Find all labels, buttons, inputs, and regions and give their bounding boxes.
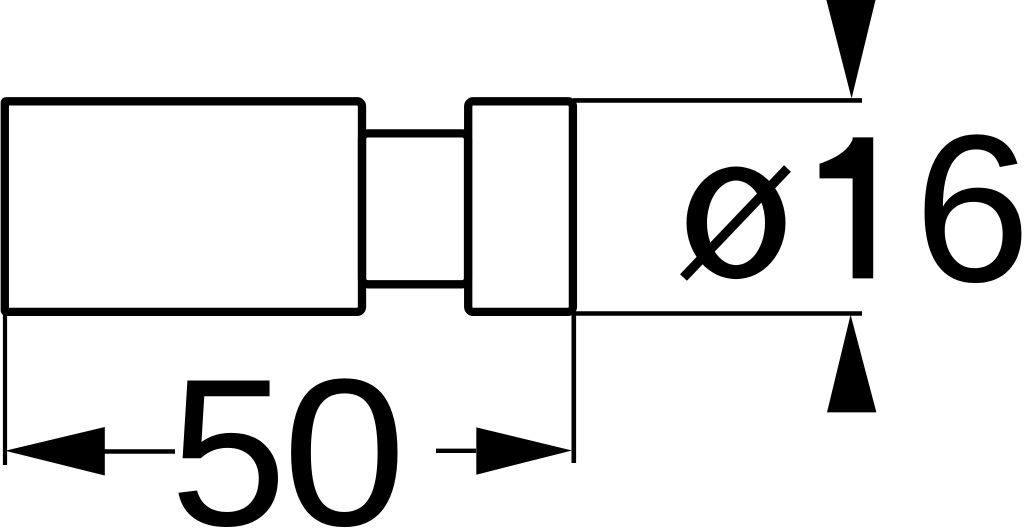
extension line right (length dimension): [571, 312, 576, 463]
extension line left (length dimension): [3, 312, 7, 465]
dimension line 50 right segment: [436, 449, 476, 453]
arrowhead top (diameter dimension, pointing down): [826, 0, 875, 99]
neck (reduced diameter groove section): [362, 133, 468, 284]
svg-text:6: 6: [914, 91, 1024, 326]
arrowhead bottom (diameter dimension, pointing up): [827, 315, 876, 413]
part body (large cylinder, side view): [5, 101, 362, 312]
extension line bottom right (diameter dimension): [573, 311, 862, 316]
svg-text:0: 0: [282, 335, 406, 528]
dimension text diameter sign (custom glyph: ellipse ring): [687, 167, 786, 280]
flange (end collar): [468, 101, 573, 312]
arrowhead left (length dimension): [5, 427, 105, 476]
arrowhead right (length dimension): [476, 427, 572, 474]
dimension line 50 left segment: [104, 449, 175, 453]
extension line top right (diameter dimension): [573, 98, 862, 103]
svg-text:5: 5: [170, 335, 287, 528]
dimension text digit 1 (custom glyph): [820, 137, 874, 278]
dimension text diameter sign slash: [684, 169, 788, 278]
